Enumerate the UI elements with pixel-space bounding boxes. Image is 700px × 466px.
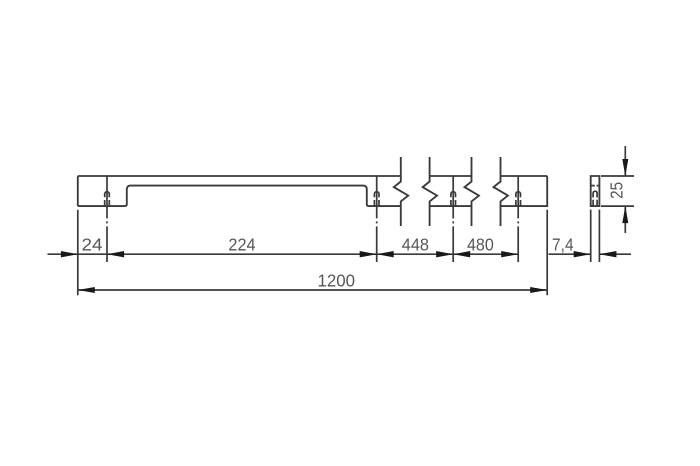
arrow 224 right (360, 251, 377, 257)
handle front view: middle section edges between breaks (430, 176, 472, 206)
arrow 480 right (501, 251, 518, 257)
screw hole 1 (hidden line) (105, 192, 110, 206)
side view profile rectangle (591, 176, 600, 206)
svg-text:224: 224 (228, 234, 256, 254)
extension line left end (77, 210, 79, 295)
arrow 24 left (outside) (61, 251, 78, 257)
svg-text:1200: 1200 (318, 270, 356, 290)
screw hole 4 (hidden line) (516, 192, 521, 206)
dimension line 25 (vertical) (624, 146, 626, 233)
arrow 7,4 left (outside) (574, 251, 591, 257)
center line hole 2 (376, 176, 378, 262)
arrow 448 right (436, 251, 453, 257)
arrow 1200 left (78, 287, 95, 293)
break line zigzag 2 (423, 157, 437, 226)
dimension line 1200 (78, 289, 547, 291)
center line hole 3 (452, 176, 454, 262)
break line zigzag 3 (465, 157, 479, 226)
dimension line row: 24 / 224 / 448 / 480 (48, 253, 519, 255)
center line hole 1 (106, 176, 108, 262)
extension lines side view height (601, 176, 634, 206)
arrow 1200 right (530, 287, 547, 293)
svg-text:7,4: 7,4 (552, 234, 574, 254)
arrow 7,4 right (outside) (599, 251, 616, 257)
svg-text:480: 480 (467, 234, 494, 254)
center line hole 4 (517, 176, 519, 262)
handle front view: bottom edge with grip recess step (78, 186, 401, 207)
side view screw hole (hidden line) (593, 191, 597, 206)
handle front view: top edge and left end cap outline (78, 176, 401, 206)
extension lines side view width (591, 210, 600, 262)
svg-text:25: 25 (607, 182, 627, 199)
dimension line 7,4 (549, 253, 631, 255)
arrow 25 bottom (outside) (622, 206, 628, 223)
handle front view: right end cap outline (501, 176, 548, 206)
svg-text:448: 448 (402, 234, 429, 254)
arrow 24/224 at hole 1 (107, 251, 124, 257)
arrow 448 left (377, 251, 394, 257)
svg-text:24: 24 (82, 234, 103, 254)
extension line right end (546, 210, 548, 295)
break line zigzag 4 (494, 157, 508, 226)
screw hole 2 (hidden line) (374, 192, 379, 206)
arrow 480 left (453, 251, 470, 257)
side view hidden step edge (591, 185, 600, 187)
screw hole 3 (hidden line) (451, 192, 456, 206)
break line zigzag 1 (394, 157, 408, 226)
arrow 25 top (outside) (622, 159, 628, 176)
